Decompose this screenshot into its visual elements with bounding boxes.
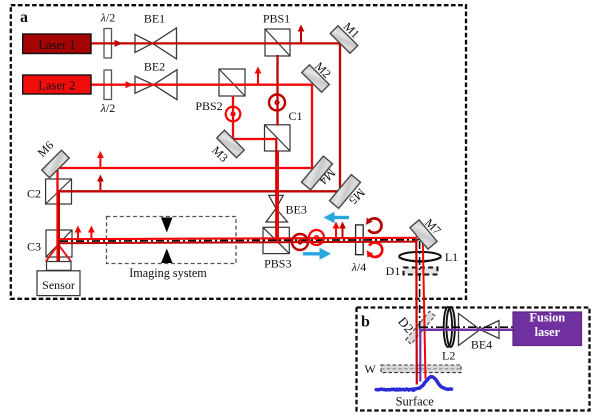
svg-text:BE1: BE1	[144, 12, 165, 26]
svg-text:BE4: BE4	[471, 338, 492, 352]
svg-text:PBS2: PBS2	[195, 99, 222, 113]
svg-text:BE3: BE3	[286, 203, 307, 217]
svg-text:W: W	[364, 362, 376, 376]
svg-text:b: b	[361, 314, 370, 331]
svg-text:Sensor: Sensor	[42, 278, 75, 292]
svg-text:C3: C3	[27, 240, 41, 254]
svg-text:PBS3: PBS3	[264, 257, 291, 271]
svg-text:C1: C1	[288, 109, 302, 123]
svg-text:laser: laser	[535, 325, 561, 339]
svg-text:D1: D1	[386, 264, 401, 278]
svg-text:L2: L2	[442, 349, 455, 363]
svg-text:λ/2: λ/2	[100, 11, 116, 25]
svg-text:Imaging system: Imaging system	[129, 266, 207, 280]
svg-text:a: a	[20, 9, 28, 26]
svg-text:Fusion: Fusion	[529, 311, 565, 325]
svg-text:Surface: Surface	[396, 395, 435, 409]
svg-text:Laser 2: Laser 2	[38, 79, 75, 93]
svg-text:Laser 1: Laser 1	[38, 38, 75, 52]
svg-text:PBS1: PBS1	[263, 12, 290, 26]
svg-text:C2: C2	[27, 187, 41, 201]
svg-text:L1: L1	[445, 250, 458, 264]
svg-text:λ/2: λ/2	[100, 101, 116, 115]
svg-text:λ/4: λ/4	[351, 260, 367, 274]
svg-text:BE2: BE2	[144, 60, 165, 74]
svg-text:M6: M6	[35, 138, 57, 160]
